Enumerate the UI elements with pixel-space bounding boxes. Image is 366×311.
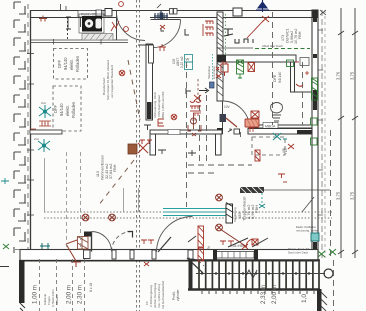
- stair break mark: [245, 270, 257, 278]
- gray guide rect: [45, 158, 139, 212]
- green X stairs: [318, 251, 325, 257]
- red T marks right mid: [278, 174, 287, 182]
- Brandschutz note: [102, 60, 114, 100]
- wall D vertical + bath top: [290, 62, 312, 92]
- teal double T bottom left: [40, 243, 50, 249]
- teal socket symbol 2: [38, 139, 50, 152]
- svg-text:94/140: 94/140: [63, 57, 68, 70]
- stair newel circle: [324, 269, 333, 278]
- label box Rohb: [78, 11, 103, 18]
- svg-text:mit Rohrwandlaufteil: mit Rohrwandlaufteil: [161, 281, 165, 309]
- door D leaf: [158, 237, 171, 252]
- door posts bottom wall: [84, 250, 91, 259]
- black T arrow on wall: [224, 29, 233, 36]
- DFE label: [273, 72, 282, 83]
- room label 173 DU/WC: [281, 28, 302, 44]
- blue north arrow: [256, 0, 269, 12]
- wall stub below F left: [150, 134, 156, 155]
- svg-text:3,75: 3,75: [336, 191, 341, 200]
- svg-text:DFF: DFF: [57, 60, 62, 68]
- white square opening top wall 2: [233, 8, 242, 16]
- short wall line left of chimney: [138, 44, 148, 46]
- red vert hatch small: [255, 150, 260, 161]
- teal pipe bundle: [163, 209, 226, 216]
- red hook bath: [296, 84, 303, 86]
- svg-text:DU/WC1: DU/WC1: [286, 28, 290, 43]
- svg-text:DFF: DFF: [53, 105, 58, 113]
- red X and E center: [194, 95, 201, 101]
- black marks under hall: [188, 113, 201, 136]
- ticks crossing left wall: [27, 39, 101, 215]
- door top-right leaf: [151, 19, 181, 21]
- svg-text:elektr.: elektr.: [69, 59, 74, 70]
- red WV marks: [193, 113, 201, 116]
- red figure near door: [111, 2, 123, 31]
- green hatched box: [237, 60, 244, 78]
- svg-text:2,30 m: 2,30 m: [77, 285, 84, 304]
- svg-text:8 x 18: 8 x 18: [89, 283, 93, 292]
- door top-right arc: [151, 20, 181, 48]
- interior wall B vertical: [217, 12, 223, 101]
- L mark: [161, 28, 164, 31]
- red hatch box bath left: [251, 111, 259, 118]
- green dotted vertical on wall B: [225, 14, 227, 54]
- svg-text:2xA: 2xA: [34, 137, 39, 141]
- outer edge line right: [321, 10, 323, 258]
- red circle crosses at riser: [216, 194, 247, 247]
- red circle cross center: [171, 114, 177, 120]
- Abmauerung note: [153, 91, 165, 118]
- dashed room boundary lines: [187, 12, 334, 311]
- green box small: [287, 60, 294, 67]
- svg-text:Anschluss: Anschluss: [212, 66, 216, 79]
- red T pair above stairs: [220, 241, 234, 245]
- svg-text:2xA: 2xA: [41, 101, 46, 105]
- teal dotted vertical + text: [212, 54, 214, 80]
- svg-text:DFE: DFE: [273, 74, 277, 82]
- green hatch band right wall: [312, 78, 318, 100]
- door A arc: [92, 232, 112, 252]
- svg-text:bauseits: bauseits: [55, 294, 59, 305]
- svg-text:2,00 m: 2,00 m: [271, 285, 278, 304]
- room label 185 Treppenhaus: [237, 196, 259, 221]
- svg-text:Wohnen/Essen: Wohnen/Essen: [101, 155, 105, 180]
- bottom-right pier: [317, 289, 322, 311]
- red combs by sockets: [30, 121, 51, 132]
- wall inner dashed edge: [27, 4, 29, 250]
- door top-left leaf: [116, 11, 118, 40]
- gray dashed verticals left room: [67, 152, 81, 250]
- red hatched box right: [248, 63, 255, 72]
- svg-text:MBDA: MBDA: [265, 125, 276, 129]
- black L mark: [185, 29, 189, 35]
- FF note: [145, 281, 165, 309]
- svg-text:Steckdose: Steckdose: [207, 65, 211, 79]
- svg-text:Steigleitung: Steigleitung: [233, 207, 237, 222]
- door hardware cluster on wall: [154, 11, 168, 20]
- svg-text:173: 173: [281, 35, 285, 41]
- door F big arc: [157, 217, 193, 253]
- svg-text:zylinder: zylinder: [176, 288, 180, 301]
- red comb stack on wall B: [203, 21, 213, 36]
- svg-text:FBH: FBH: [113, 164, 117, 172]
- dimension line 1: [338, 8, 344, 258]
- red X with diagonal top right: [247, 16, 269, 38]
- center dashed pair vertical: [137, 0, 140, 311]
- svg-text:3,76: 3,76: [336, 71, 341, 80]
- green X left edge: [3, 244, 9, 249]
- radiator bar: [240, 187, 264, 193]
- svg-text:2,00 m: 2,00 m: [66, 285, 73, 304]
- svg-text:FBH: FBH: [254, 205, 259, 213]
- black hatched riser box: [226, 204, 233, 223]
- teal X bath: [273, 133, 287, 140]
- svg-text:mit durchg. Welle: mit durchg. Welle: [296, 229, 318, 233]
- door closer blob: [220, 114, 227, 122]
- teal dashed riser 2: [261, 193, 263, 206]
- svg-text:94/140: 94/140: [59, 103, 64, 116]
- wall C horizontal band: [217, 55, 296, 62]
- red Ts at door B: [141, 240, 154, 266]
- svg-text:94/140: 94/140: [278, 72, 282, 83]
- bottom-left thick wall: [19, 260, 25, 303]
- top outer wall: [30, 11, 318, 18]
- left edge small dash: [0, 266, 9, 268]
- window boxes in bottom wall: [216, 252, 254, 259]
- stair mid walk line: [196, 273, 325, 275]
- red circle crosses on dotted line: [82, 214, 115, 221]
- svg-text:Rolladen: Rolladen: [75, 55, 80, 72]
- svg-text:1,00 m: 1,00 m: [32, 285, 39, 304]
- svg-text:BRH 1,88m ab OKF: BRH 1,88m ab OKF: [161, 91, 165, 118]
- wall F horizontal band: [150, 130, 222, 134]
- small box pair right: [300, 58, 309, 66]
- stair feet ticks: [202, 291, 314, 294]
- salmon box Speicher: [245, 119, 259, 127]
- bathroom wall E double: [250, 125, 318, 128]
- red comb cluster hall: [190, 101, 201, 111]
- white boxes on wall: [170, 9, 174, 15]
- svg-text:2,22 m2: 2,22 m2: [180, 56, 184, 68]
- diagonal pipe to wall: [302, 197, 314, 212]
- misc small ticks top wall: [61, 4, 327, 15]
- door B dashed arc: [112, 232, 132, 252]
- aux line above bottom wall: [15, 249, 20, 251]
- label box MBDA: [263, 123, 278, 130]
- DFF dashed box 2: [53, 86, 81, 131]
- black door marks above stairs: [188, 236, 268, 247]
- red circle cross chimney: [119, 70, 125, 76]
- red hatch strip left of door A: [78, 237, 89, 250]
- black switch glyphs below wall C: [235, 39, 253, 43]
- washbasin: [271, 103, 283, 122]
- stair treads: [199, 260, 319, 289]
- svg-text:2,33 m: 2,33 m: [260, 285, 267, 304]
- red zigzag: [158, 44, 166, 51]
- svg-text:3,75: 3,75: [350, 71, 355, 80]
- dashed extension lines below bottom wall: [40, 259, 85, 311]
- red X near wall: [160, 25, 165, 29]
- red symbol top-left: [39, 16, 47, 22]
- red door C leaf: [66, 240, 81, 267]
- neighbor wall hatch column left: [14, 2, 26, 253]
- svg-text:113: 113: [96, 171, 100, 177]
- dotted utility lines horizontal: [44, 212, 332, 218]
- DFF dashed box 1: [54, 49, 88, 80]
- bottom wall band: [20, 250, 318, 261]
- dimension chain line right of wall: [324, 10, 326, 258]
- svg-text:Abluft über Dach: Abluft über Dach: [262, 44, 283, 48]
- red hatch strip hall: [198, 226, 204, 261]
- bottom rotated dimension texts: [32, 285, 279, 304]
- dim labels: [336, 71, 355, 200]
- red plug symbol: [216, 61, 228, 76]
- interior door arc center: [222, 101, 224, 128]
- teal WM boxes: [185, 55, 193, 63]
- green dashed vent line: [255, 48, 310, 50]
- svg-text:von tragenden Bauteilen!: von tragenden Bauteilen!: [110, 64, 114, 98]
- teal socket symbol 1: [39, 105, 51, 118]
- door top-left arc: [117, 12, 146, 41]
- right outer wall with windows: [312, 10, 318, 258]
- door A leaf bottom: [91, 232, 93, 252]
- svg-text:0,18=H50: 0,18=H50: [230, 244, 244, 248]
- teal box stairs right: [311, 233, 319, 241]
- room label 113 Wohnen: [96, 155, 117, 180]
- interior wall top-left horizontal: [30, 40, 128, 43]
- left outer wall: [30, 10, 32, 253]
- door E stairs leaf: [187, 258, 203, 273]
- wall stub bar left: [30, 130, 62, 134]
- wall stub below F right: [216, 134, 222, 155]
- white square opening top wall: [105, 9, 112, 17]
- dimension line 2: [352, 8, 358, 258]
- thin line hall top: [217, 47, 253, 49]
- svg-text:1,0: 1,0: [301, 294, 308, 303]
- svg-text:TEV: TEV: [284, 148, 288, 154]
- dashed shower box: [252, 137, 285, 155]
- svg-text:10V: 10V: [224, 105, 231, 109]
- stairs: [188, 260, 320, 290]
- svg-text:FBH: FBH: [298, 31, 302, 39]
- red circle left of chimney: [124, 27, 129, 32]
- svg-text:Rolladen: Rolladen: [71, 101, 76, 118]
- bracket and arrow to blue box: [186, 88, 191, 94]
- room label 103 ABST: [172, 56, 184, 68]
- kitchen brown cluster: [128, 144, 137, 154]
- brown dashed diagonal: [98, 60, 140, 206]
- svg-text:elektr.: elektr.: [65, 105, 70, 116]
- svg-text:3,75: 3,75: [350, 191, 355, 200]
- chimney wall stub: [146, 44, 153, 120]
- kitchen appliance block: [82, 16, 102, 32]
- svg-text:W: W: [186, 57, 190, 62]
- svg-text:Dach über Dach: Dach über Dach: [288, 251, 309, 255]
- green boxes right wall: [311, 118, 318, 125]
- red TEV: [288, 144, 294, 149]
- small red x below: [216, 74, 221, 78]
- red cluster bottom center: [242, 239, 258, 249]
